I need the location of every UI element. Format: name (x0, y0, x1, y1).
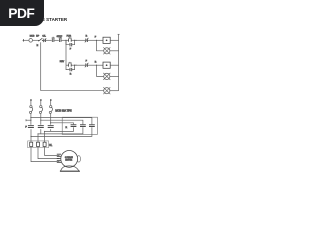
enclosure reverse contactor (62, 117, 97, 134)
svg-text:N: N (37, 45, 39, 47)
wire: O/L to stop button (46, 39, 52, 41)
wire: P terminal to fuse (25, 39, 29, 41)
node B2 (junction dot) (74, 65, 75, 66)
pushbutton STOP (NC) (52, 37, 55, 42)
wire: FOR to node B (71, 39, 77, 41)
svg-text:MCB 32A TPN: MCB 32A TPN (55, 109, 71, 112)
contact F holding (NO aux) (70, 43, 72, 46)
OL element 1 (30, 142, 33, 146)
lamp R (indicator, circle with X) (103, 73, 110, 80)
wire: rung2 to F interlock (75, 64, 86, 66)
svg-text:R: R (86, 35, 88, 37)
wire: coil F to N rail (110, 39, 118, 41)
node N (top of neutral rail) (118, 33, 120, 35)
title: FORWARD REVERSE STARTER (left part hidden under PDF badge) (0, 17, 67, 22)
contact F1 (main NO) (28, 126, 34, 128)
wire: holding loop right rise (72, 40, 75, 44)
node T2 feed junction (40, 120, 41, 121)
motor M (3 phase) body (61, 151, 78, 168)
PDF badge overlay (0, 0, 44, 26)
svg-text:DP: DP (36, 36, 40, 38)
terminal L3 (50, 99, 52, 107)
wire: holding loop rung2 left (66, 65, 69, 69)
wire: pole2 down to feed bus (40, 114, 42, 125)
svg-text:O/L: O/L (42, 36, 46, 38)
wire: left stub of feed bus (26, 119, 31, 121)
MCB pole 1 (blade) (29, 107, 32, 113)
motor shaft cap (77, 156, 80, 162)
svg-text:FOR: FOR (67, 35, 72, 37)
node B (junction dot) (74, 40, 75, 41)
svg-text:MOTOR: MOTOR (65, 160, 72, 162)
wire: F2 output down (40, 129, 42, 134)
svg-text:F: F (25, 126, 27, 128)
wire: holding loop rung2 right (72, 65, 75, 69)
node C2 (lamp tap) (96, 65, 97, 66)
wire: lamp ON to N rail (110, 90, 119, 92)
contact F3 (main NO) (48, 126, 54, 128)
wire: phase-c to OL3 (44, 131, 46, 142)
wire: lamp F tap drop (97, 40, 104, 51)
fuse F1 (circle) (29, 39, 33, 43)
svg-text:F: F (86, 60, 88, 62)
wire: fuse to DP switch (33, 39, 39, 41)
motor pedestal (61, 166, 79, 171)
wire: coil R to N rail (110, 64, 118, 66)
motor base line (60, 170, 80, 172)
OL element 3 (43, 142, 46, 146)
contact F2 (main NO) (38, 126, 44, 128)
svg-text:F: F (70, 48, 72, 50)
wire: switch to OL contact (42, 39, 43, 41)
wire: N rail (right vertical) (118, 34, 120, 90)
wire: rung1 node B to R interlock (75, 39, 86, 41)
contact R2 (main NO) (80, 125, 86, 127)
wire: stop to node A (61, 39, 68, 41)
wire: phase-b to OL2 (37, 134, 39, 142)
wire: stop to second stop element (54, 39, 59, 41)
wire: pole3 down to feed bus (50, 114, 52, 125)
MCB pole 2 (blade) (39, 107, 42, 113)
wire: left N rail drop (40, 42, 42, 90)
node A (junction dot) (65, 40, 66, 41)
svg-text:REV: REV (60, 61, 65, 63)
terminal L1 (30, 99, 32, 107)
wire: R3 output crossover to phase-a (45, 127, 74, 131)
lamp F (indicator, circle with X) (103, 47, 110, 54)
svg-text:F: F (95, 37, 97, 39)
wire: lamp R to N rail (110, 75, 119, 77)
wire: rung2 node A2 to button (66, 64, 68, 66)
coil F (contactor coil box) (103, 37, 110, 43)
wire: feed line phase2 to reverse pole (41, 120, 83, 124)
node P (phase supply terminal) (23, 39, 25, 42)
contact F interlock (NC) (85, 63, 89, 68)
svg-text:MCB: MCB (30, 36, 35, 38)
node J3 (44, 131, 45, 132)
wire: R1 output crossover to phase-c (31, 127, 92, 136)
contact R interlock (NC) (85, 38, 89, 43)
svg-text:3 PHASE: 3 PHASE (65, 156, 73, 159)
svg-text:R: R (66, 127, 68, 129)
MCB pole 3 (blade) (49, 107, 52, 113)
svg-text:R: R (95, 62, 97, 64)
node T1 feed junction (30, 117, 31, 118)
wire: interlock to coil F (88, 39, 103, 41)
wire: feeder drop node A to rung2 (65, 40, 67, 65)
terminal L2 (40, 99, 42, 107)
pushbutton STOP2 (NC) (59, 37, 62, 42)
wire: feed line phase1 to reverse pole (31, 118, 92, 125)
wire: R2 output to phase-b (38, 127, 83, 134)
node C (lamp tap) (96, 40, 97, 41)
wire: lamp R tap drop (97, 65, 104, 76)
wire: F3 output down (50, 129, 52, 131)
wire: interlock2 to coil R (88, 64, 103, 66)
wire: phase-a to OL1 (30, 136, 32, 142)
svg-text:R: R (70, 73, 72, 75)
wire: holding loop left drop (66, 40, 69, 44)
wire: OL3 to motor (top step) (45, 147, 60, 156)
wire: OL1 to motor (lowest step) (31, 147, 59, 162)
motor terminal fins (57, 154, 61, 162)
svg-text:OL: OL (49, 144, 53, 147)
contact O/L (NC trip) (43, 38, 46, 42)
overload relay enclosure (28, 141, 49, 148)
contact R3 (main NO) (89, 125, 95, 127)
pushbutton FOR (NO) (68, 37, 72, 42)
OL element 2 (37, 142, 40, 146)
wire: bottom rung to lamp ON (41, 90, 104, 92)
wire: F1 output down (30, 129, 32, 136)
svg-text:STOP: STOP (57, 36, 63, 38)
wire: feed line phase3 to reverse pole (51, 123, 74, 124)
switch S1 (DP MCB blade) (38, 38, 43, 41)
wire: REV to node B2 (71, 64, 77, 66)
node T3 feed junction (50, 122, 51, 123)
lamp ON (supply indicator, circle with X) (103, 87, 110, 94)
node J1 (30, 136, 31, 137)
contact R1 (main NO) (71, 125, 77, 127)
wire: OL2 to motor (middle step) (38, 147, 59, 159)
wire: pole1 down to feed bus (30, 114, 32, 125)
pushbutton REV (NO) (68, 62, 72, 67)
contact R holding (NO aux) (70, 68, 72, 71)
node J2 (37, 133, 38, 134)
coil R (contactor coil box) (103, 62, 110, 68)
wire: lamp F to N rail (110, 50, 119, 52)
